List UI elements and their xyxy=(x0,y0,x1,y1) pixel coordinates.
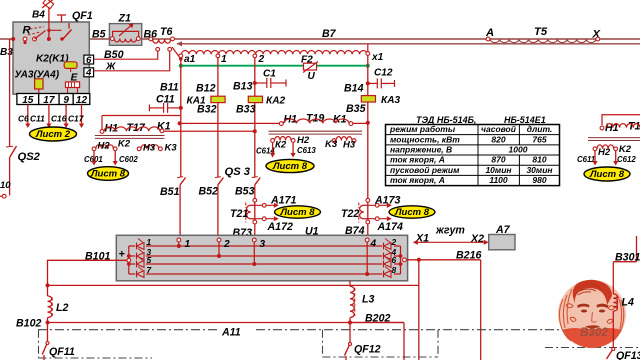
svg-text:C6: C6 xyxy=(18,114,29,124)
svg-text:B4: B4 xyxy=(32,10,45,21)
svg-text:9: 9 xyxy=(63,95,69,106)
svg-text:T22: T22 xyxy=(341,208,359,220)
svg-text:T21: T21 xyxy=(230,208,248,220)
svg-text:6: 6 xyxy=(86,55,92,66)
svg-text:12: 12 xyxy=(76,95,88,106)
svg-text:QF12: QF12 xyxy=(354,344,381,356)
svg-text:К2: К2 xyxy=(275,140,287,151)
svg-text:B11: B11 xyxy=(160,82,179,94)
svg-text:980: 980 xyxy=(532,175,546,185)
svg-text:Лист 8: Лист 8 xyxy=(589,169,625,180)
svg-text:ток якоря, А: ток якоря, А xyxy=(390,155,445,165)
svg-text:x1: x1 xyxy=(371,52,384,63)
svg-text:жгут: жгут xyxy=(435,225,465,237)
svg-text:А174: А174 xyxy=(377,221,403,233)
svg-text:QS2: QS2 xyxy=(18,151,41,163)
svg-text:820: 820 xyxy=(491,134,505,144)
svg-text:L3: L3 xyxy=(362,294,374,306)
svg-text:B33: B33 xyxy=(236,104,256,116)
svg-text:B102: B102 xyxy=(16,318,41,330)
svg-text:КА2: КА2 xyxy=(266,96,285,107)
svg-text:Лист 8: Лист 8 xyxy=(90,169,126,180)
svg-text:B51: B51 xyxy=(160,186,180,198)
svg-text:5: 5 xyxy=(147,255,152,265)
svg-text:H2: H2 xyxy=(598,147,611,158)
svg-text:2: 2 xyxy=(223,239,230,250)
svg-text:Лист 8: Лист 8 xyxy=(272,161,308,172)
svg-text:ток якоря, А: ток якоря, А xyxy=(390,175,445,185)
svg-text:7: 7 xyxy=(147,265,152,275)
svg-text:QF1: QF1 xyxy=(72,10,93,22)
svg-text:1100: 1100 xyxy=(489,175,508,185)
svg-text:X2: X2 xyxy=(470,233,484,245)
svg-text:30мин: 30мин xyxy=(526,165,552,175)
svg-text:B35: B35 xyxy=(346,103,367,115)
svg-text:H2: H2 xyxy=(297,135,310,146)
svg-text:2: 2 xyxy=(258,54,265,65)
svg-text:C17: C17 xyxy=(68,114,84,124)
svg-text:B13: B13 xyxy=(233,81,253,93)
svg-text:B52: B52 xyxy=(199,186,219,198)
svg-text:K2: K2 xyxy=(619,144,632,155)
svg-text:2: 2 xyxy=(391,237,397,247)
svg-text:K3: K3 xyxy=(165,143,178,154)
svg-text:QF11: QF11 xyxy=(49,346,75,358)
svg-text:А171: А171 xyxy=(270,195,296,207)
svg-text:H3: H3 xyxy=(143,143,156,154)
svg-text:А173: А173 xyxy=(374,195,400,207)
svg-text:A11: A11 xyxy=(221,327,241,339)
svg-text:6: 6 xyxy=(392,255,397,265)
svg-text:мощность, кВт: мощность, кВт xyxy=(390,134,460,144)
svg-text:B32: B32 xyxy=(197,104,217,116)
svg-text:765: 765 xyxy=(532,134,546,144)
svg-text:C11: C11 xyxy=(156,94,175,106)
svg-text:+: + xyxy=(119,249,125,261)
svg-text:часовой: часовой xyxy=(481,124,517,134)
svg-text:810: 810 xyxy=(532,155,546,165)
svg-text:С612: С612 xyxy=(617,155,636,164)
svg-text:С611: С611 xyxy=(577,155,595,164)
svg-text:длит.: длит. xyxy=(527,124,553,134)
svg-text:8: 8 xyxy=(392,265,397,275)
svg-text:Лист 8: Лист 8 xyxy=(279,207,315,218)
svg-text:B302: B302 xyxy=(580,326,608,339)
svg-text:T18: T18 xyxy=(628,121,640,133)
svg-text:B12: B12 xyxy=(196,83,216,95)
svg-text:C1: C1 xyxy=(263,69,276,80)
svg-text:4: 4 xyxy=(370,239,377,250)
svg-text:4: 4 xyxy=(85,68,92,79)
svg-text:1000: 1000 xyxy=(509,144,528,154)
svg-text:C16: C16 xyxy=(51,114,67,124)
svg-text:B7: B7 xyxy=(322,28,337,40)
svg-text:T5: T5 xyxy=(534,26,548,38)
svg-text:H2: H2 xyxy=(98,141,111,152)
svg-text:17: 17 xyxy=(43,95,55,106)
svg-text:C602: C602 xyxy=(119,155,138,164)
svg-text:QS 3: QS 3 xyxy=(225,166,251,178)
svg-text:Z1: Z1 xyxy=(118,13,131,25)
svg-text:10: 10 xyxy=(0,180,11,191)
svg-text:T6: T6 xyxy=(160,26,172,38)
svg-text:B53: B53 xyxy=(235,186,255,198)
svg-text:C613: C613 xyxy=(297,146,316,155)
svg-text:режим работы: режим работы xyxy=(389,124,456,134)
svg-text:B5: B5 xyxy=(92,29,107,41)
svg-text:B14: B14 xyxy=(344,83,364,95)
svg-text:15: 15 xyxy=(22,95,34,106)
svg-text:U: U xyxy=(308,71,316,82)
svg-text:H3: H3 xyxy=(343,140,356,151)
svg-text:K3: K3 xyxy=(325,139,338,150)
svg-text:QF13: QF13 xyxy=(616,350,640,360)
svg-text:3: 3 xyxy=(260,239,266,250)
svg-text:L4: L4 xyxy=(622,297,634,309)
svg-text:C12: C12 xyxy=(374,68,393,79)
svg-text:B3: B3 xyxy=(0,47,13,58)
svg-text:L2: L2 xyxy=(56,302,68,314)
svg-text:K2: K2 xyxy=(118,139,131,150)
svg-text:10мин: 10мин xyxy=(485,165,511,175)
svg-text:1: 1 xyxy=(147,237,152,247)
svg-text:Лист 8: Лист 8 xyxy=(394,207,430,218)
svg-text:870: 870 xyxy=(491,155,505,165)
svg-text:пусковой режим: пусковой режим xyxy=(390,165,460,175)
svg-text:напряжение, В: напряжение, В xyxy=(390,144,452,154)
svg-text:1: 1 xyxy=(221,54,227,65)
svg-text:Лист 2: Лист 2 xyxy=(35,129,71,140)
svg-text:КА3: КА3 xyxy=(381,95,400,106)
svg-text:А172: А172 xyxy=(267,221,293,233)
svg-text:C11: C11 xyxy=(30,114,45,124)
svg-text:a1: a1 xyxy=(184,54,196,65)
svg-text:1: 1 xyxy=(185,239,191,250)
